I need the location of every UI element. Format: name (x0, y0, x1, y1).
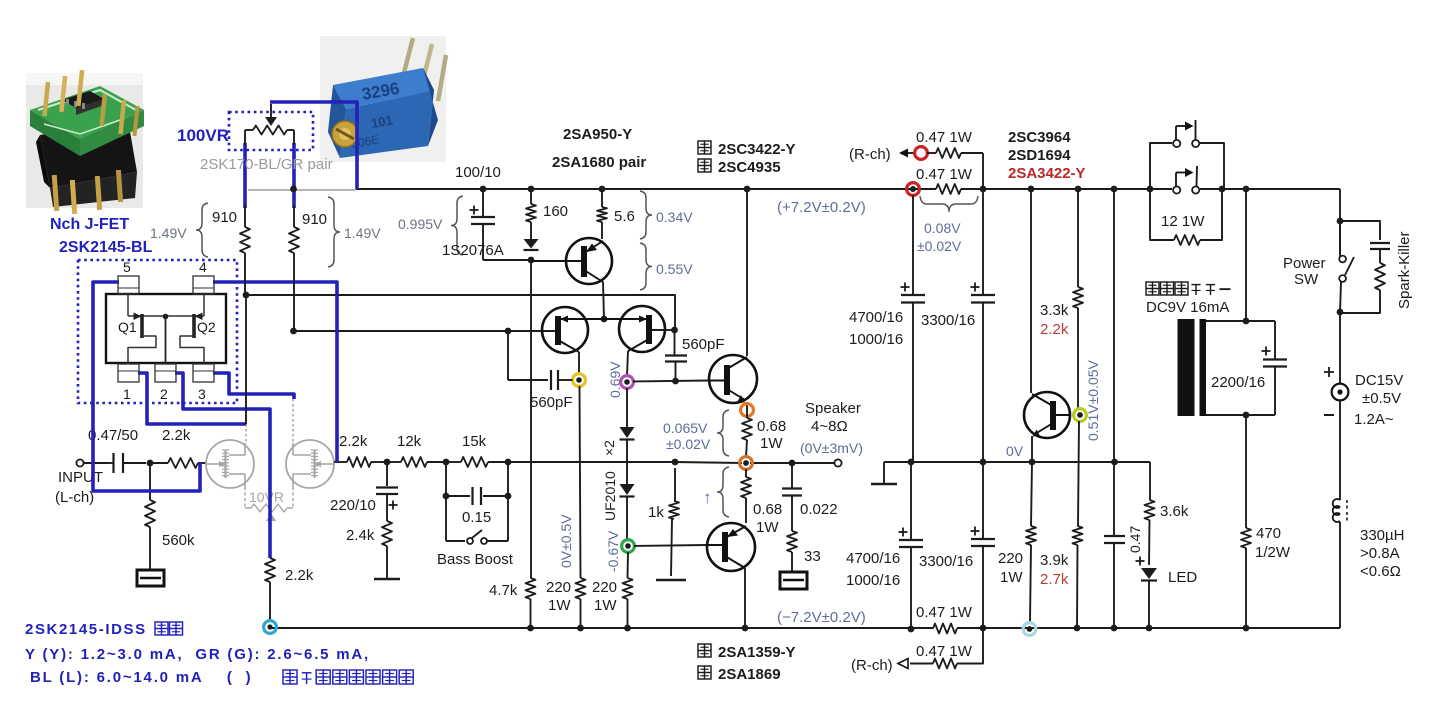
node right pair base (671, 327, 678, 334)
node 1078 top (1075, 186, 1082, 193)
capacitor 4700/16 lower (910, 462, 912, 540)
wire mid rail to output (675, 462, 742, 463)
svg-text:UF2010: UF2010 (602, 471, 618, 521)
svg-text:1W: 1W (760, 435, 783, 452)
bass boost branch (445, 462, 447, 541)
svg-text:2.4k: 2.4k (346, 527, 375, 544)
svg-text:×2: ×2 (601, 440, 617, 456)
svg-text:INPUT: INPUT (58, 469, 103, 486)
svg-text:2SK2145-IDSS: 2SK2145-IDSS (25, 621, 147, 638)
wire (371, 461, 387, 463)
dotted box 100VR (229, 112, 313, 150)
node 560pF base junction (672, 378, 679, 385)
wire 508 column (507, 331, 509, 380)
svg-text:4.7k: 4.7k (489, 582, 518, 599)
node 2SA1359 collector rail (742, 625, 749, 632)
resistor 160 (530, 189, 532, 204)
node gate rail left (243, 292, 250, 299)
svg-text:Power: Power (1283, 255, 1326, 272)
resistor 3.6k (1149, 462, 1151, 500)
resistor 15k (446, 461, 461, 463)
resistor 220 1W a (576, 578, 586, 599)
wire blue pin3 (213, 373, 294, 399)
svg-text:0.51V±0.05V: 0.51V±0.05V (1085, 359, 1101, 441)
capacitor 0.47 (1113, 462, 1115, 536)
svg-text:1W: 1W (594, 597, 617, 614)
node emitter 0V (1029, 459, 1036, 466)
resistor 33 (787, 531, 797, 552)
node 3.3k top (1028, 186, 1035, 193)
svg-text:±0.5V: ±0.5V (1362, 390, 1401, 407)
node coil top (1243, 318, 1250, 325)
ghost JFET (old 2SK170) left (206, 440, 254, 488)
svg-text:Bass Boost: Bass Boost (437, 551, 514, 568)
wire ghost to 2.2k (334, 461, 347, 463)
dotted box 2SK2145 (78, 260, 237, 403)
node 1114 top (1111, 186, 1118, 193)
wire coil top link (1206, 320, 1275, 322)
resistor 910 right (289, 227, 299, 253)
DC jack (1332, 384, 1349, 401)
wire 2SA1359 collector (744, 568, 746, 628)
wire right collector to purple node (627, 351, 628, 376)
resistor 2.2k source (265, 558, 275, 582)
node coil bottom (1243, 412, 1250, 419)
wire +7.2V top rail faint left segment (248, 189, 356, 191)
wire (488, 461, 508, 463)
label relay kanji (1146, 282, 1159, 295)
transistor relay driver NPN (1024, 392, 1070, 438)
brace arrow-up (717, 467, 729, 517)
spark killer RC (1340, 221, 1380, 240)
svg-text:2SC4935: 2SC4935 (718, 159, 781, 176)
node rail 1222 (1219, 186, 1226, 193)
svg-text:(0V±3mV): (0V±3mV) (800, 440, 863, 456)
svg-text:10VR: 10VR (249, 489, 284, 505)
wire blue pot right leg (292, 143, 296, 208)
svg-text:4700/16: 4700/16 (849, 309, 903, 326)
svg-text:3.9k: 3.9k (1040, 552, 1069, 569)
svg-text:2: 2 (160, 386, 168, 402)
svg-text:Speaker: Speaker (805, 400, 861, 417)
wire emitter down (1031, 436, 1033, 462)
capacitor 100/10 (482, 189, 484, 217)
photo of JFET adapter PCB (26, 70, 144, 214)
wire bottom -7.2V rail (270, 627, 933, 629)
node 3300 bottom (980, 625, 987, 632)
svg-text:3.6k: 3.6k (1160, 503, 1189, 520)
brace 0.065V (717, 410, 729, 456)
svg-text:560pF: 560pF (530, 394, 573, 411)
wire left collector to node (578, 352, 580, 374)
capacitor 560pF (left) (508, 379, 548, 381)
svg-text:±0.02V: ±0.02V (666, 436, 711, 452)
node top rail at right 910 (290, 186, 297, 193)
node bass boost left (443, 459, 450, 466)
node pair emitter join (601, 316, 608, 323)
svg-text:3300/16: 3300/16 (921, 312, 975, 329)
node bass boost right (505, 459, 512, 466)
svg-text:470: 470 (1256, 525, 1281, 542)
wire diode chain mid (626, 440, 628, 484)
wire 560pF column upper (674, 330, 676, 355)
diode 1S2076A (524, 239, 539, 249)
ghost JFET (old 2SK170) right (286, 440, 334, 488)
svg-text:(R-ch): (R-ch) (851, 657, 893, 674)
svg-text:1W: 1W (1000, 569, 1023, 586)
resistor 0.68 1W bottom (745, 469, 747, 477)
svg-text:0.08V: 0.08V (924, 220, 961, 236)
node rail 1150 (1147, 186, 1154, 193)
resistor 220 1W c (1031, 462, 1032, 526)
svg-text:0.69V: 0.69V (607, 361, 623, 398)
node driver bottom (green mark) (622, 540, 635, 553)
svg-text:1W: 1W (756, 519, 779, 536)
resistor 0.47 1W (supply) (936, 184, 961, 194)
resistor 910 left (240, 227, 250, 253)
resistor 12k (387, 461, 401, 463)
node 983 top (980, 186, 987, 193)
wire yellow node down (580, 386, 581, 578)
wire mid rail to 1k node (508, 461, 675, 463)
node 3300 mid (980, 459, 987, 466)
brace 0.995V (451, 196, 463, 255)
node output junction (orange mark) (740, 457, 753, 470)
svg-text:2.2k: 2.2k (339, 433, 368, 450)
svg-text:2.2k: 2.2k (1040, 321, 1069, 338)
svg-text:BL (L): 6.0~14.0 mA ( ): BL (L): 6.0~14.0 mA ( ) (30, 669, 252, 686)
node spark top (1337, 218, 1344, 225)
wire pot left to 910 (244, 205, 246, 227)
svg-text:12 1W: 12 1W (1161, 213, 1205, 230)
power switch (1339, 221, 1341, 255)
svg-text:220/10: 220/10 (330, 497, 376, 514)
node 4.7k bottom (527, 625, 534, 632)
svg-text:Spark-Killer: Spark-Killer (1396, 231, 1413, 309)
svg-text:0.68: 0.68 (753, 501, 782, 518)
svg-text:1.2A~: 1.2A~ (1354, 411, 1394, 428)
svg-text:DC9V 16mA: DC9V 16mA (1146, 299, 1229, 316)
relay contact upper (1150, 143, 1172, 189)
resistor 2.2k feedback (347, 457, 371, 467)
label new 2SA1359-Y (698, 644, 711, 657)
svg-text:100VR: 100VR (177, 126, 229, 145)
brace 1.49V right (328, 197, 340, 267)
arrow R-ch top (899, 149, 908, 158)
JFET Q1 in package (127, 294, 129, 316)
wire diode chain lower (626, 497, 628, 540)
node 1114 mid (1111, 459, 1118, 466)
pin 4 (193, 276, 214, 294)
node gate rail right (290, 328, 297, 335)
node 4700 bottom (908, 626, 915, 633)
svg-text:1000/16: 1000/16 (849, 331, 903, 348)
label jack minus (1324, 414, 1334, 416)
wire blue pin5 to input gate (93, 282, 200, 491)
wire blue wiper to rail (270, 102, 357, 189)
svg-text:12k: 12k (397, 433, 422, 450)
svg-text:2SD1694: 2SD1694 (1008, 147, 1071, 164)
capacitor 2200/16 (1274, 321, 1276, 359)
svg-text:220: 220 (546, 579, 571, 596)
wire right supply column top (1339, 189, 1341, 258)
svg-text:2SA1680 pair: 2SA1680 pair (552, 154, 646, 171)
svg-text:1.49V: 1.49V (344, 225, 381, 241)
svg-text:±0.02V: ±0.02V (917, 238, 962, 254)
wire output node to speaker (750, 462, 838, 464)
svg-text:0.065V: 0.065V (663, 420, 708, 436)
relay coil bars (1178, 319, 1195, 416)
transistor 2SA1680 right (619, 306, 665, 352)
svg-text:(R-ch): (R-ch) (849, 146, 891, 163)
wire +7.2V top rail (356, 188, 936, 190)
svg-text:2SK170-BL/GR pair: 2SK170-BL/GR pair (200, 156, 333, 173)
node 0.022 junction (789, 460, 796, 467)
svg-text:2SC3964: 2SC3964 (1008, 129, 1071, 146)
label old 2SC4935 (698, 159, 711, 172)
pin 3 (193, 364, 214, 382)
node supply red mark (907, 183, 920, 196)
svg-text:4: 4 (199, 259, 207, 275)
resistor 220 1W b (623, 578, 633, 599)
svg-text:2SA3422-Y: 2SA3422-Y (1008, 165, 1086, 182)
svg-text:(−7.2V±0.2V): (−7.2V±0.2V) (777, 609, 866, 626)
svg-text:2SC3422-Y: 2SC3422-Y (718, 141, 796, 158)
node R-ch mark (red ring) (915, 147, 928, 160)
svg-text:Nch J-FET: Nch J-FET (50, 216, 129, 233)
svg-text:0.15: 0.15 (462, 509, 491, 526)
node driver top (purple mark) (621, 376, 634, 389)
node first stage output (yellow mark) (573, 374, 586, 387)
svg-text:(+7.2V±0.2V): (+7.2V±0.2V) (777, 199, 866, 216)
node base mark (yellow-green) (1074, 409, 1087, 422)
node 470 bottom (1243, 625, 1250, 632)
svg-text:15k: 15k (462, 433, 487, 450)
wire blue pot left leg (243, 143, 247, 208)
capacitor 560pF (right) (665, 354, 687, 356)
svg-text:1.49V: 1.49V (150, 225, 187, 241)
node diode junction (528, 257, 535, 264)
svg-text:1k: 1k (648, 504, 664, 521)
diode UF2010 no2 (620, 484, 635, 495)
svg-text:3.3k: 3.3k (1040, 302, 1069, 319)
svg-text:0.47 1W: 0.47 1W (916, 129, 973, 146)
resistor 0.47 1W (bottom rail) (933, 624, 957, 634)
photo of 3296 trimmer potentiometer (320, 36, 446, 162)
brace 0.55V (640, 243, 652, 290)
node 100/10 top (480, 186, 487, 193)
svg-text:2.2k: 2.2k (285, 567, 314, 584)
svg-text:0.55V: 0.55V (656, 261, 693, 277)
wire pot right to 910 (293, 205, 295, 227)
wire 2SC3422 collector (746, 189, 748, 356)
wire blue pin1 (138, 373, 246, 424)
ground bar (0V rail) (883, 462, 885, 483)
brace 0.34V (640, 191, 652, 239)
node emitter mark top (orange ring) (746, 402, 748, 414)
svg-text:↑: ↑ (703, 488, 712, 507)
resistor 5.6 (601, 189, 603, 207)
brace 0.08V (920, 196, 978, 212)
resistor 470 1/2W (1245, 415, 1247, 528)
node bottom (pale blue mark) (1023, 623, 1036, 636)
transistor 2SA1359 (output PNP) (707, 523, 755, 571)
svg-text:Q2: Q2 (197, 319, 216, 335)
wire LED down (1148, 581, 1150, 628)
svg-text:2SA1359-Y: 2SA1359-Y (718, 644, 796, 661)
resistor 3.9k (1078, 421, 1079, 526)
label old 2SA1869 (698, 666, 711, 679)
wire 100/10 to diode junction (483, 259, 531, 261)
svg-text:2SA1869: 2SA1869 (718, 666, 781, 683)
svg-text:0.47: 0.47 (1127, 526, 1143, 553)
resistor 12 1W bypass (1150, 189, 1174, 240)
svg-text:LED: LED (1168, 569, 1197, 586)
svg-text:0.47 1W: 0.47 1W (916, 166, 973, 183)
input terminal (L-ch) (76, 459, 83, 466)
resistor 4.7k (526, 578, 536, 599)
capacitor 0.47/50 (112, 453, 114, 473)
svg-text:0V: 0V (1006, 443, 1024, 459)
wire coil bottom link (1206, 414, 1275, 416)
package body 2SK2145 (106, 294, 226, 363)
svg-text:2SK2145-BL: 2SK2145-BL (59, 239, 153, 256)
ghost trimmer 10VR (244, 487, 246, 508)
svg-text:2200/16: 2200/16 (1211, 374, 1265, 391)
svg-text:4~8Ω: 4~8Ω (811, 418, 848, 435)
node 160 top (528, 186, 535, 193)
wire purple node to base line (633, 381, 709, 382)
node 1k junction (672, 459, 679, 466)
svg-text:0.68: 0.68 (757, 418, 786, 435)
svg-text:330µH: 330µH (1360, 527, 1405, 544)
wire blue pin2 to source resistor (175, 373, 270, 558)
potentiometer 100VR (253, 126, 287, 135)
svg-text:560pF: 560pF (682, 336, 725, 353)
diode UF2010 no1 (620, 427, 635, 438)
svg-text:3300/16: 3300/16 (919, 553, 973, 570)
speaker output terminal (834, 459, 841, 466)
svg-text:0.34V: 0.34V (656, 209, 693, 225)
node 4700 mid (908, 459, 915, 466)
wire 0V rail (884, 461, 1150, 463)
svg-text:0.47 1W: 0.47 1W (916, 604, 973, 621)
svg-text:5: 5 (123, 259, 131, 275)
svg-text:0.995V: 0.995V (398, 216, 443, 232)
label new 2SC3422-Y (698, 141, 711, 154)
svg-text:0.022: 0.022 (800, 501, 838, 518)
arrow R-ch bottom (898, 659, 908, 669)
ground chassis (33) (780, 572, 807, 589)
ghost wire drain1 dotted (245, 424, 247, 442)
resistor 1k (674, 468, 676, 501)
svg-text:Q1: Q1 (118, 319, 137, 335)
svg-text:1: 1 (123, 386, 131, 402)
svg-text:2SA950-Y: 2SA950-Y (563, 126, 632, 143)
wire relay column (1245, 189, 1247, 321)
wire gate-bias rail upper (y=295) (246, 295, 675, 330)
inductor 330uH (1333, 499, 1340, 508)
svg-text:SW: SW (1294, 271, 1319, 288)
svg-text:3: 3 (198, 386, 206, 402)
node 1114 bottom (1111, 625, 1118, 632)
LED (1136, 560, 1145, 562)
svg-text:0.47 1W: 0.47 1W (916, 643, 973, 660)
svg-text:5.6: 5.6 (614, 208, 635, 225)
capacitor 220/10 (386, 462, 388, 486)
wire 2.2k to ghost gate (198, 462, 206, 464)
svg-text:(L-ch): (L-ch) (55, 489, 94, 506)
svg-text:1W: 1W (548, 597, 571, 614)
wire right base link (664, 329, 675, 331)
svg-text:910: 910 (302, 211, 327, 228)
pin 1 (118, 364, 139, 382)
wire gate-bias rail lower (y=331) (293, 330, 543, 332)
brace 1.49V left (196, 203, 208, 257)
wire right supply column bottom (1339, 522, 1341, 628)
wire to 2.2k (150, 462, 168, 464)
svg-text:100/10: 100/10 (455, 164, 501, 181)
svg-text:0V±0.5V: 0V±0.5V (558, 514, 574, 568)
svg-text:1/2W: 1/2W (1255, 544, 1291, 561)
transistor 2SC3422 (output NPN) (709, 355, 757, 403)
node rail 1246 (1243, 186, 1250, 193)
wire 2SA950 collector (603, 282, 604, 319)
relay contact lower (in rail) (1172, 183, 1200, 195)
ghost wire drain2 dotted (292, 399, 294, 442)
node 220a bottom (577, 625, 584, 632)
wire left column to pin1 level (245, 295, 247, 424)
wire (427, 461, 446, 463)
node 3.9k bottom (1074, 625, 1081, 632)
wire 1114 column (1113, 189, 1115, 462)
capacitor 3300/16 upper (982, 189, 984, 295)
transistor 2SA950 (first stage PNP) (566, 238, 612, 284)
wire to jack (1339, 312, 1341, 384)
svg-text:160: 160 (543, 203, 568, 220)
node 5.6 top (599, 186, 606, 193)
capacitor 3300/16 lower (982, 462, 984, 539)
svg-text:-0.67V: -0.67V (605, 530, 621, 572)
wire blue pin4 to right gate (213, 282, 337, 462)
wire green node down (627, 552, 630, 578)
svg-text:<0.6Ω: <0.6Ω (1360, 563, 1401, 580)
resistor 2.2k input (168, 458, 198, 468)
svg-text:1000/16: 1000/16 (846, 572, 900, 589)
svg-text:560k: 560k (162, 532, 195, 549)
svg-text:Y (Y): 1.2~3.0 mA, GR (G): 2.: Y (Y): 1.2~3.0 mA, GR (G): 2.6~6.5 mA, (25, 646, 370, 663)
resistor 2.4k (382, 521, 392, 546)
ground bar (1k) (671, 519, 672, 576)
wire relay driver collector (1030, 189, 1032, 393)
svg-text:DC15V: DC15V (1355, 372, 1403, 389)
ground bar (2.4k) (386, 546, 388, 578)
wire diode chain upper (626, 388, 628, 427)
resistor 0.68 1W top (746, 414, 748, 418)
node 220b bottom (624, 625, 631, 632)
resistor 0.47 1W (R-ch) (927, 152, 936, 154)
svg-text:220: 220 (998, 550, 1023, 567)
svg-text:33: 33 (804, 548, 821, 565)
svg-text:2.7k: 2.7k (1040, 571, 1069, 588)
resistor 3.3k (1077, 189, 1079, 287)
resistor 0.47 1W (R-ch bottom) (957, 628, 983, 664)
svg-text:0.47/50: 0.47/50 (88, 427, 138, 444)
wire diode column down (530, 260, 532, 578)
node source rail (cyan mark) (264, 621, 277, 634)
svg-text:2.2k: 2.2k (162, 427, 191, 444)
resistor 560k (149, 463, 151, 500)
